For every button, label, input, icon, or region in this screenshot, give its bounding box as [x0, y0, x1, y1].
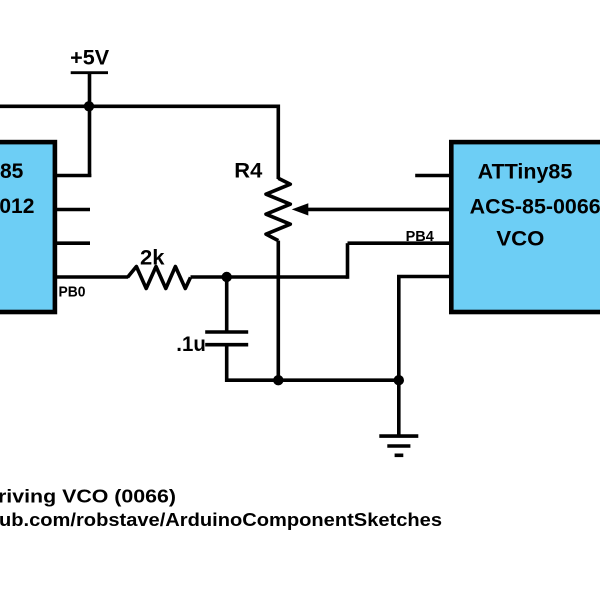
svg-text:2k: 2k [140, 247, 165, 270]
wire ground stem [397, 380, 401, 434]
wire R4 bottom lead [276, 241, 280, 381]
pin stub left box pin1 [54, 174, 91, 178]
svg-text:ATTiny85: ATTiny85 [0, 160, 24, 183]
svg-text:ATTiny85: ATTiny85 [478, 161, 573, 184]
ground symbol bar 1 [379, 434, 418, 438]
potentiometer R4 zigzag [266, 178, 290, 240]
ground symbol bar 2 [387, 444, 410, 448]
resistor R3 2k zigzag [128, 267, 191, 289]
svg-text:.1u: .1u [176, 333, 206, 356]
pin stub left box pin3 [54, 241, 90, 245]
wire PB0 pin to resistor [54, 275, 128, 279]
svg-text:+5V: +5V [70, 46, 109, 69]
wire resistor to PB4 corner [191, 275, 348, 279]
wire rail corner down to R4 top [276, 105, 280, 180]
svg-text:ub.com/robstave/ArduinoCompone: ub.com/robstave/ArduinoComponentSketches [0, 510, 442, 530]
capacitor C1 top plate [205, 330, 248, 334]
wire R4 wiper arrow line [306, 208, 449, 212]
wire PB4 net vertical [346, 243, 350, 279]
node junction dot at +5V rail [84, 101, 94, 111]
wire +5V stem down to left box pin 1 [88, 73, 92, 177]
svg-text:ACS-85-0012: ACS-85-0012 [0, 195, 34, 218]
node junction dot R4 bottom rail [273, 375, 283, 385]
IC U1 left box ATTiny85 ACS-85-0012 [0, 142, 55, 312]
svg-text:R4: R4 [234, 160, 262, 183]
arrowhead R4 wiper [292, 203, 309, 215]
wire top +5V rail [0, 105, 278, 109]
svg-text:ACS-85-0066: ACS-85-0066 [470, 196, 600, 219]
wire right box pin4 to ground net [399, 277, 449, 381]
IC U2 right box ATTiny85 ACS-85-0066 VCO [451, 142, 600, 312]
pin stub right box pin1 [415, 174, 449, 178]
svg-text:VCO: VCO [496, 228, 544, 251]
svg-text:riving VCO (0066): riving VCO (0066) [0, 487, 176, 507]
svg-text:PB0: PB0 [59, 284, 86, 300]
wire PB4 pin horizontal [348, 241, 450, 245]
capacitor C1 bottom plate [205, 343, 248, 347]
wire capacitor bottom lead and bottom rail [227, 345, 399, 381]
ground symbol bar 3 [395, 453, 404, 457]
node junction dot ground rail [394, 375, 404, 385]
svg-text:PB4: PB4 [406, 229, 434, 245]
power symbol +5V bar [71, 71, 108, 74]
node junction dot capacitor tap [222, 272, 232, 282]
wire capacitor top lead [225, 277, 229, 332]
pin stub left box pin2 [54, 208, 90, 212]
